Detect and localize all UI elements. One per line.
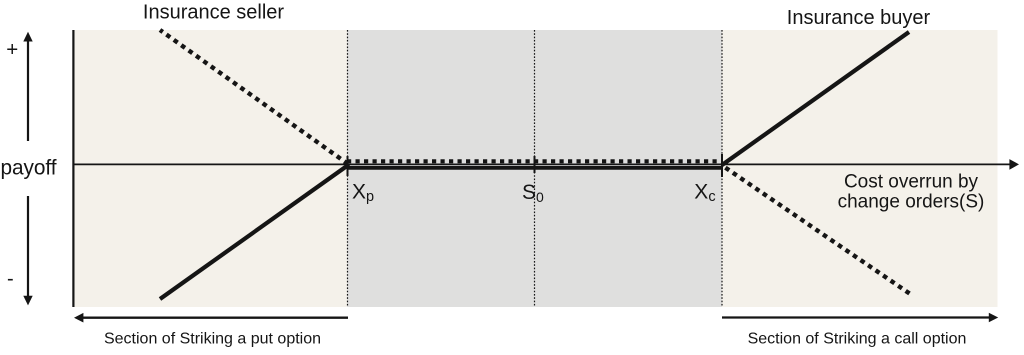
svg-text:Cost overrun by: Cost overrun by xyxy=(844,172,979,193)
svg-text:Section of Striking a put opti: Section of Striking a put option xyxy=(104,331,321,348)
svg-text:-: - xyxy=(7,268,14,290)
svg-text:change orders(S): change orders(S) xyxy=(838,192,985,213)
svg-text:+: + xyxy=(6,38,18,61)
svg-text:Section of Striking a call opt: Section of Striking a call option xyxy=(748,331,967,348)
svg-text:Insurance seller: Insurance seller xyxy=(143,2,285,24)
svg-text:payoff: payoff xyxy=(1,157,57,180)
svg-text:Insurance buyer: Insurance buyer xyxy=(787,7,931,29)
